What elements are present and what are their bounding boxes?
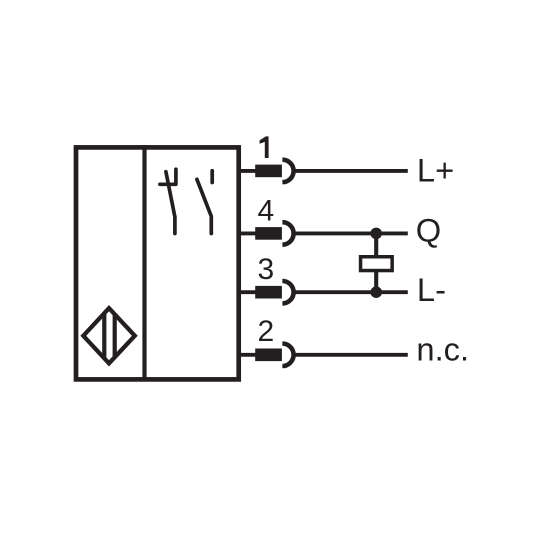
svg-text:4: 4 [257, 194, 274, 227]
svg-text:3: 3 [257, 253, 274, 286]
svg-text:L+: L+ [417, 152, 454, 189]
svg-text:2: 2 [257, 315, 274, 348]
svg-text:L-: L- [417, 271, 446, 308]
svg-text:n.c.: n.c. [416, 331, 469, 368]
svg-text:Q: Q [416, 212, 441, 249]
